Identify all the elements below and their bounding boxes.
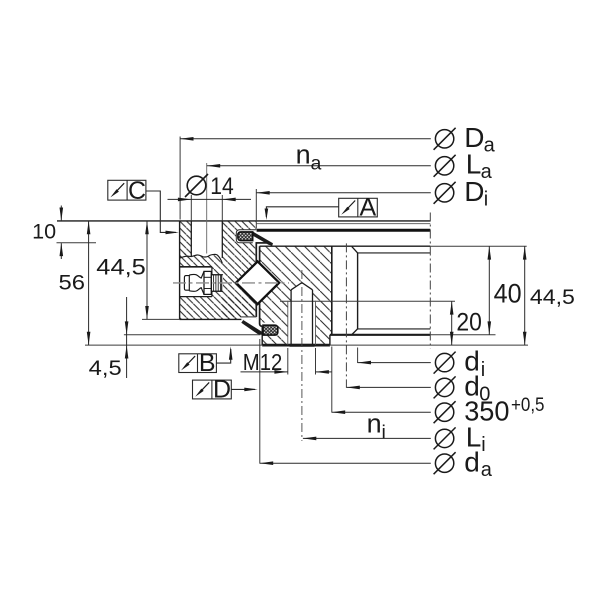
- ext: d_i from recess wall: [357, 348, 359, 364]
- shank hole edges: [212, 274, 223, 276]
- outer ring bottom face: [180, 318, 242, 320]
- nipple threaded shank: [211, 275, 221, 291]
- pocket top edge: [180, 266, 212, 268]
- svg-text:B: B: [199, 349, 216, 377]
- svg-text:i: i: [481, 434, 485, 456]
- bottom seal body: [263, 325, 278, 335]
- svg-text:i: i: [382, 421, 386, 443]
- svg-text:4,5: 4,5: [89, 356, 122, 380]
- ext: ØDa vertical: [179, 137, 181, 220]
- grease nipple / roller centre line: [173, 282, 289, 284]
- outer ring left face (ØDa surface): [179, 221, 181, 320]
- hole centre line: [206, 163, 208, 254]
- row Ø350: [332, 410, 431, 414]
- recess bottom chamfer: [352, 329, 358, 335]
- break (wavy) line: [180, 254, 223, 263]
- label ØLa: [434, 155, 456, 177]
- nipple neck and cone bottom: [189, 288, 204, 295]
- ext: recessed face y=334.8 left: [124, 334, 261, 336]
- outer ring left strip (hatched section): [180, 221, 192, 258]
- svg-text:d: d: [464, 446, 480, 477]
- svg-text:40: 40: [494, 279, 522, 309]
- tooth thin line: [257, 223, 431, 225]
- ext: Ø14 hole edges above: [190, 195, 192, 221]
- hole centre line: [301, 270, 303, 441]
- ext: d_a from inner ring OD: [259, 339, 261, 464]
- ext: Ø350 root line down: [331, 347, 333, 413]
- ext: recessed face y=334.8 right: [430, 334, 495, 336]
- outer ring bore face upper (gap line left): [255, 243, 257, 263]
- svg-text:+0,5: +0,5: [511, 394, 545, 416]
- svg-text:D: D: [464, 176, 484, 207]
- tooth thick band: [257, 229, 431, 232]
- recess bottom edge: [358, 328, 431, 330]
- inner ring left face lower: [261, 326, 263, 345]
- hole mouth on bottom face: [290, 344, 315, 347]
- pocket right wall below shank: [211, 291, 213, 296]
- mounting hole Ø14 (white, wavy broken-out bottom): [191, 221, 222, 263]
- top seal groove outline: [236, 230, 256, 243]
- ext: seal top edge for dim 10: [57, 242, 97, 244]
- svg-text:a: a: [481, 459, 493, 481]
- ext: M12 edges below: [287, 348, 289, 375]
- recess top chamfer: [352, 247, 358, 253]
- drill cone: [291, 283, 312, 290]
- nipple hex body: [204, 271, 211, 294]
- gap lines below roller: [255, 303, 257, 317]
- inner ring top face: [260, 245, 431, 247]
- outer ring top face / extension line: [57, 220, 430, 222]
- row ØDi: [256, 191, 431, 195]
- top seal groove (white): [236, 230, 256, 243]
- grease nipple shank hole (white): [212, 275, 223, 292]
- svg-text:10: 10: [32, 219, 56, 243]
- label Ød_i: [434, 352, 456, 374]
- svg-text:20: 20: [456, 308, 482, 336]
- inner ring section (hatched): [260, 246, 332, 345]
- top seal body: [238, 232, 253, 241]
- ext: thread depth line y=301.2: [280, 300, 455, 302]
- outer ring bridge below break line (hatched): [180, 254, 223, 267]
- top seal contact edge: [256, 242, 270, 244]
- svg-text:14: 14: [210, 173, 234, 200]
- svg-text:D: D: [213, 376, 231, 404]
- row ØL_i / n_i: [303, 437, 431, 441]
- hole edges: [190, 221, 192, 257]
- row ØLa / na: [207, 164, 431, 168]
- inner ring bottom face (thick): [262, 344, 330, 347]
- svg-text:L: L: [466, 149, 482, 180]
- label Ød_a: [434, 452, 456, 474]
- label ØDi: [434, 182, 456, 204]
- svg-text:i: i: [481, 359, 485, 381]
- pitch line of gear (dash-dot): [345, 243, 347, 387]
- svg-text:a: a: [484, 135, 496, 157]
- bottom step wall: [329, 335, 331, 345]
- bottom seal groove corner line: [241, 316, 256, 318]
- gear root line: [331, 246, 333, 335]
- label ØDa: [434, 128, 456, 150]
- recess wall: [357, 253, 359, 329]
- svg-text:a: a: [311, 153, 322, 175]
- recessed bottom face (thick): [330, 334, 430, 336]
- outer ring bottom block (hatched): [180, 297, 257, 320]
- svg-text:i: i: [484, 188, 488, 210]
- row Ød_a: [260, 461, 431, 465]
- M12 tapped hole (white): [288, 283, 316, 345]
- bore line (dash-dot): [429, 213, 431, 349]
- drill hole sides (minor Ø): [290, 290, 292, 345]
- ext: bottom face y=345.1 left: [85, 344, 262, 346]
- pocket bottom edge: [180, 296, 212, 298]
- outer ring main right block (hatched): [222, 221, 256, 320]
- ext: bottom face y=345.1 right: [330, 344, 528, 346]
- svg-text:44,5: 44,5: [96, 254, 146, 279]
- ext: inner top face right for 40/44,5: [430, 245, 526, 247]
- Ø14 label: [185, 174, 208, 197]
- svg-text:44,5: 44,5: [530, 285, 575, 309]
- nipple head cap: [184, 276, 189, 291]
- bottom seal lip (elastomer): [241, 320, 263, 335]
- ext: ØDi vertical: [255, 189, 257, 229]
- svg-text:n: n: [296, 140, 311, 170]
- row ØDa: [180, 137, 431, 141]
- top seal lip (elastomer): [253, 231, 273, 245]
- nipple neck and cone top: [189, 271, 204, 278]
- outer ring bottom corner groove (white): [241, 316, 256, 319]
- svg-text:56: 56: [59, 270, 86, 294]
- recess top edge: [358, 252, 431, 254]
- thread major Ø thin lines: [287, 301, 289, 345]
- ext: outer ring bottom for dim 44,5: [142, 318, 180, 320]
- inner ring left face upper (gap line right): [259, 246, 261, 263]
- svg-text:C: C: [128, 177, 146, 205]
- pocket right wall above shank: [211, 267, 213, 275]
- outer ring wall between pocket and block (hatched): [212, 267, 222, 297]
- label Ø350+0,5: [434, 401, 456, 423]
- bottom seal groove (white): [258, 323, 278, 336]
- label Ød_0: [434, 376, 456, 398]
- svg-text:M12: M12: [243, 349, 282, 375]
- svg-text:A: A: [359, 194, 376, 222]
- svg-text:n: n: [367, 408, 382, 438]
- row Ød_i: [358, 361, 431, 365]
- row Ød_0: [346, 386, 430, 390]
- label ØL_i: [434, 427, 456, 449]
- roller (white fill under outline): [236, 261, 279, 304]
